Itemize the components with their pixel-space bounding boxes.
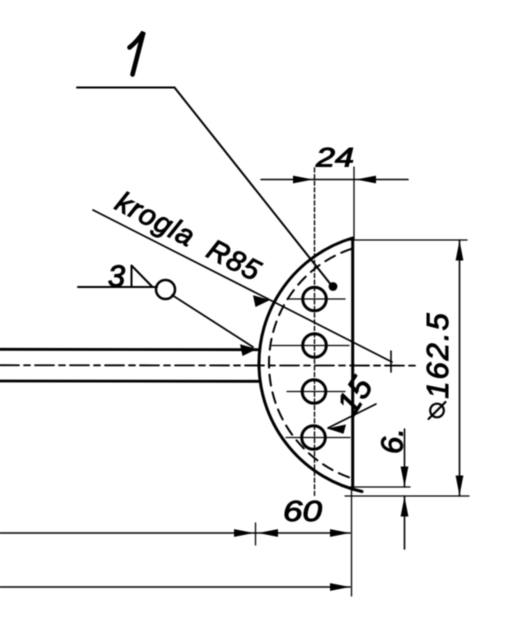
rod bottom edge: [0, 380, 259, 383]
dimension 6 upper line: [404, 429, 406, 487]
sphere outline arc: [259, 238, 362, 492]
dimension 60 left arrowhead: [258, 529, 278, 537]
dimension dia162.5 diameter symbol: [430, 404, 444, 418]
dimension 60 left extension line: [255, 523, 257, 545]
chain arrowhead into left extension: [234, 529, 254, 537]
hole H2 crosshair: [272, 345, 349, 347]
dimension 6 lower line: [404, 496, 406, 549]
hole H1: [303, 287, 327, 311]
part label 1: [130, 32, 144, 75]
svg-text:162.5: 162.5: [420, 311, 455, 399]
hole H1 crosshair: [287, 298, 345, 300]
dimension 6 lower arrowhead: [401, 497, 409, 517]
dimension 24 left arrowhead: [293, 176, 313, 184]
flat edge of part: [351, 239, 354, 488]
svg-text:24: 24: [315, 143, 354, 173]
inner dashed arc: [269, 249, 352, 479]
dimension 6 upper arrowhead: [401, 467, 409, 487]
leader 15 line: [328, 404, 376, 428]
dimension 60 right arrowhead: [330, 529, 350, 537]
hole H4: [302, 426, 326, 450]
rod top edge: [0, 348, 258, 351]
svg-text:60: 60: [283, 496, 322, 528]
centerline horizontal: [0, 364, 415, 366]
dimension dia162.5 top extension line: [347, 239, 467, 241]
hole H3: [302, 380, 326, 404]
surface mark circle: [156, 280, 175, 299]
flat edge extension line: [351, 488, 353, 596]
surface mark leader: [172, 295, 253, 347]
dimension 6 upper extension line: [350, 486, 410, 488]
dimension 24 right arrowhead: [356, 176, 376, 184]
surface mark triangle: [132, 266, 153, 288]
surface mark leader arrowhead: [240, 344, 257, 356]
bottom chain arrowhead: [330, 583, 350, 591]
leader 15 arrowhead: [327, 425, 346, 434]
dimension dia162.5 line: [459, 240, 461, 496]
bottom chain dimension line: [0, 586, 350, 588]
hole H4 crosshair: [286, 437, 350, 439]
dimension 24 line: [261, 179, 408, 181]
surface mark baseline: [78, 286, 157, 288]
dimension 60 chain line: [0, 532, 350, 534]
hole H2: [303, 334, 327, 358]
hole axis centerline: [314, 168, 316, 497]
sphere center tick: [390, 351, 392, 372]
hole H3 crosshair: [287, 391, 345, 393]
dimension 24 right extension line: [353, 167, 355, 240]
leader from label 1: [77, 88, 330, 284]
radius leader arrowhead: [253, 295, 270, 307]
dimension dia162.5 bottom extension line: [345, 495, 469, 497]
svg-text:3: 3: [108, 259, 125, 294]
radius leader R85: [93, 210, 392, 362]
leader dot on part: [329, 282, 338, 291]
dimension dia162.5 bottom arrowhead: [456, 476, 464, 496]
dimension dia162.5 top arrowhead: [456, 241, 464, 261]
